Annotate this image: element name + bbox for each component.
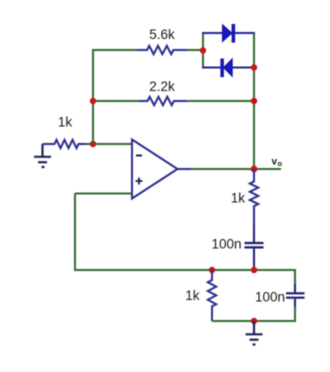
wire op-amp non-inverting input (75, 193, 132, 195)
diode D1 (top, anode left) (202, 24, 255, 42)
node junction dot (254,101) (251, 98, 257, 104)
wire left feedback bus vertical (92, 50, 94, 144)
capacitor C1 100n (series) (245, 225, 264, 270)
wire bottom ground rail (212, 320, 296, 322)
node junction dot (254,321) (251, 318, 257, 324)
svg-text:1k: 1k (231, 191, 246, 206)
resistor R3 1k (output to cap) (250, 169, 258, 225)
capacitor C2 100n (bottom) (286, 293, 305, 297)
wire R4 to right bus (187, 100, 254, 102)
svg-text:100n: 100n (211, 237, 241, 252)
wire op-amp output lead (177, 168, 191, 170)
node junction dot (93,144) (90, 141, 96, 147)
svg-text:100n: 100n (255, 290, 285, 305)
svg-text:2.2k: 2.2k (149, 79, 175, 94)
resistor R1 1k (left input resistor) (43, 140, 87, 148)
node junction dot (203,50.5) (200, 47, 206, 53)
ground (bottom) (246, 321, 263, 345)
capacitor C2 bottom lead (294, 299, 296, 307)
wire diode loop left vertical (202, 33, 204, 68)
svg-text:5.6k: 5.6k (149, 27, 175, 42)
node junction dot (93,101) (90, 98, 96, 104)
wire left feedback loop down and bottom rail (75, 194, 295, 271)
wire output to node and stub (191, 168, 281, 170)
wire C2 down to bottom rail (294, 307, 296, 322)
wire right bus vertical (diodes down to output node) (253, 33, 255, 169)
ground (left, at R1 input) (34, 144, 51, 167)
svg-text:1k: 1k (185, 288, 200, 303)
wire R1 to op-amp inverting input (86, 143, 132, 145)
wire 2.2k branch left (93, 100, 139, 102)
diode D2 (bottom, anode right) (202, 59, 255, 77)
node junction dot (254,270) (251, 267, 257, 273)
capacitor C2 top lead (294, 284, 296, 292)
resistor R4 2.2k (139, 97, 188, 105)
node junction dot (212,270) (209, 267, 215, 273)
node junction dot (254,67.5) (251, 64, 257, 70)
resistor R5 1k (bottom, to ground rail) (208, 270, 216, 321)
op-amp U1 (132, 140, 178, 199)
wire right branch down to C2 (294, 269, 296, 284)
wire top branch to R2 (92, 49, 137, 51)
wire R2 to diode loop (187, 49, 203, 51)
node junction dot (254,169) output vo (251, 166, 258, 173)
label vo (output) (272, 157, 283, 169)
resistor R2 5.6k (137, 46, 187, 54)
svg-text:1k: 1k (58, 115, 73, 130)
svg-text:o: o (278, 159, 283, 168)
